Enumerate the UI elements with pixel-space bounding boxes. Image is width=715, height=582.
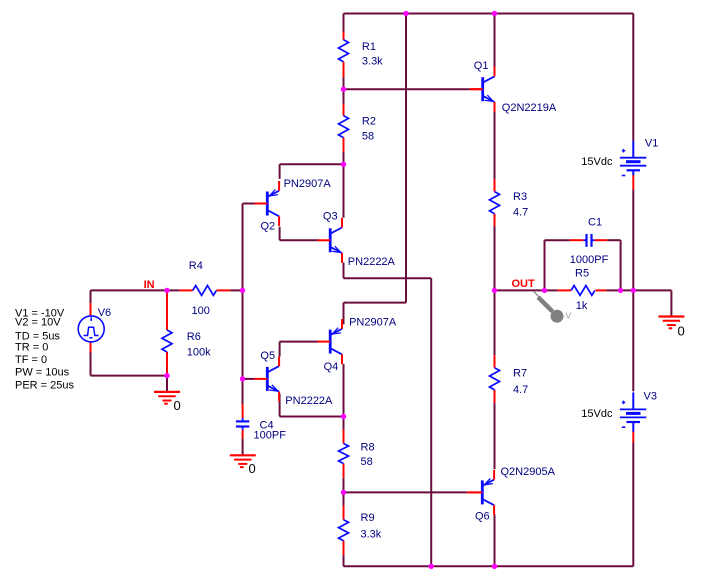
red lead V1 bottom bbox=[632, 175, 634, 190]
red lead R6 bottom bbox=[166, 352, 168, 373]
red lead R5 right bbox=[596, 289, 607, 291]
svg-text:R3: R3 bbox=[513, 191, 527, 203]
transistor Q5 base pin bbox=[255, 378, 268, 380]
wire battery column to right ground bbox=[633, 289, 671, 291]
resistor R7 zigzag bbox=[490, 368, 500, 390]
transistor Q4 emitter bbox=[331, 329, 342, 335]
wire Q1 collector to rail bbox=[494, 14, 496, 68]
red lead C1 right bbox=[595, 239, 608, 241]
svg-text:15Vdc: 15Vdc bbox=[581, 156, 613, 168]
junction R1-R2 Q1 base node bbox=[341, 87, 346, 92]
red lead R2 top bbox=[343, 104, 345, 116]
transistor Q3 base bar bbox=[329, 228, 332, 252]
wire Q2 base run bbox=[243, 203, 255, 205]
transistor Q5 base bar bbox=[266, 367, 269, 391]
svg-text:Q2N2219A: Q2N2219A bbox=[502, 102, 557, 114]
svg-text:1000PF: 1000PF bbox=[570, 254, 609, 266]
transistor Q4 base pin bbox=[317, 341, 330, 343]
svg-text:R9: R9 bbox=[361, 512, 375, 524]
wire Q1 base run bbox=[344, 88, 470, 90]
junction R6 bottom node bbox=[164, 373, 169, 378]
red lead Q1 base bbox=[470, 88, 483, 90]
pulse source V6 waveform glyph bbox=[84, 327, 99, 335]
svg-text:Q3: Q3 bbox=[323, 210, 338, 222]
wire V3 to bottom rail bbox=[632, 442, 634, 566]
wire OUT to R7 bbox=[494, 290, 496, 355]
svg-text:V3: V3 bbox=[644, 391, 657, 403]
wire R8 to node bbox=[343, 478, 345, 493]
svg-text:100k: 100k bbox=[187, 346, 211, 358]
wire R1 top lead stub bbox=[343, 14, 345, 32]
svg-text:Q1: Q1 bbox=[474, 60, 489, 72]
transistor Q6 base bar bbox=[481, 480, 484, 504]
red lead R4 left bbox=[179, 289, 192, 291]
junction R2 bottom node bbox=[341, 162, 346, 167]
transistor Q6 base pin bbox=[470, 491, 483, 493]
svg-text:R8: R8 bbox=[361, 442, 375, 454]
junction IN node bbox=[164, 288, 169, 293]
red lead R8 top bbox=[343, 430, 345, 444]
dc source V3 minus mark bbox=[622, 426, 626, 428]
wire Q6 base run bbox=[344, 491, 468, 493]
svg-text:R5: R5 bbox=[575, 267, 589, 279]
wire Q1 emitter to R3 bbox=[494, 112, 496, 180]
wire mid node to V3 bbox=[632, 290, 634, 391]
transistor Q1 base pin bbox=[470, 88, 483, 90]
ground 0 below R6 bbox=[154, 391, 180, 393]
svg-text:100PF: 100PF bbox=[254, 430, 287, 442]
transistor Q1 collector bbox=[484, 76, 495, 82]
junction R5 C1 right bbox=[618, 288, 623, 293]
dc source V1 battery symbol bbox=[632, 141, 634, 158]
svg-text:58: 58 bbox=[361, 456, 373, 468]
svg-text:0: 0 bbox=[174, 398, 181, 413]
wire column C down to bottom rail bbox=[430, 278, 432, 566]
wire top +15V rail bbox=[344, 13, 634, 15]
junction top rail at Q1 collector bbox=[492, 11, 497, 16]
svg-text:100: 100 bbox=[192, 305, 210, 317]
voltage probe marker bbox=[534, 291, 539, 296]
dc source V3 battery symbol bbox=[632, 392, 634, 409]
red lead V6 bottom bbox=[90, 342, 92, 353]
wire node to R9 bbox=[343, 492, 345, 505]
resistor R1 zigzag bbox=[339, 40, 349, 62]
wire C1 left riser bbox=[544, 240, 546, 290]
wire R5 right lead segment bbox=[606, 289, 620, 291]
junction R8 R9 Q6 base node bbox=[341, 490, 346, 495]
wire Q2 collector to Q3 base bbox=[279, 227, 281, 241]
resistor R6 zigzag bbox=[162, 330, 172, 352]
junction bottom rail Q6 collector bbox=[492, 564, 497, 569]
svg-text:PN2222A: PN2222A bbox=[348, 256, 396, 268]
transistor Q4 base bar bbox=[329, 330, 332, 354]
svg-text:4.7: 4.7 bbox=[513, 384, 528, 396]
wire Q5 emitter run bbox=[279, 394, 281, 417]
svg-text:OUT: OUT bbox=[512, 278, 536, 290]
svg-text:15Vdc: 15Vdc bbox=[581, 408, 613, 420]
wire Q4 collector to node bbox=[343, 364, 345, 417]
svg-text:TD = 5us: TD = 5us bbox=[15, 330, 60, 342]
transistor Q5 emitter bbox=[268, 386, 279, 392]
dc source V1 plus mark bbox=[622, 150, 626, 152]
transistor Q2 collector bbox=[268, 211, 279, 217]
dc source V3 plus mark bbox=[622, 401, 626, 403]
wire R7 to Q6 emitter bbox=[494, 403, 496, 469]
svg-text:0: 0 bbox=[678, 323, 685, 338]
wire R6 bottom node to ground bbox=[166, 376, 168, 392]
wire R3 to OUT node bbox=[494, 226, 496, 291]
transistor Q6 collector bbox=[483, 499, 494, 505]
red lead R7 bottom bbox=[494, 390, 496, 403]
svg-text:R2: R2 bbox=[362, 116, 376, 128]
wire node to R8 bbox=[343, 417, 345, 430]
dc source V1 minus mark bbox=[622, 175, 626, 177]
svg-text:R1: R1 bbox=[362, 41, 376, 53]
svg-text:1k: 1k bbox=[576, 300, 588, 312]
svg-text:PN2907A: PN2907A bbox=[349, 316, 397, 328]
wire V6 bottom to R6 bottom node bbox=[90, 353, 92, 376]
svg-text:R6: R6 bbox=[187, 331, 201, 343]
ground 0 right of R5 bbox=[658, 315, 684, 317]
wire R5/C1 junction to battery column bbox=[621, 289, 634, 291]
wire Q2 emitter run bbox=[279, 164, 281, 179]
resistor R4 zigzag bbox=[193, 286, 217, 296]
wire V1 column upper bbox=[632, 14, 634, 141]
wire Q6 collector to bottom rail bbox=[494, 515, 496, 567]
resistor R5 zigzag bbox=[571, 286, 595, 296]
red lead C4 top bbox=[242, 404, 244, 418]
ground 0 below C4 bbox=[230, 454, 256, 456]
pulse source V6 circle bbox=[78, 316, 104, 342]
red lead R2 bottom bbox=[343, 138, 345, 152]
junction Q5 base node bbox=[240, 376, 245, 381]
transistor Q1 base bar bbox=[481, 77, 484, 101]
junction top rail at column B bbox=[403, 11, 408, 16]
transistor Q2 base pin bbox=[255, 203, 268, 205]
wire bottom rail bbox=[344, 565, 634, 567]
svg-text:C1: C1 bbox=[588, 217, 602, 229]
junction R4 input column bbox=[240, 288, 245, 293]
wire input column to Q5 base node bbox=[242, 290, 244, 379]
wire IN node run bbox=[91, 289, 168, 291]
svg-text:0: 0 bbox=[249, 461, 256, 476]
svg-text:V2 = 10V: V2 = 10V bbox=[15, 317, 61, 329]
junction R5 C1 left bbox=[542, 288, 547, 293]
svg-text:V6: V6 bbox=[98, 307, 111, 319]
wire R5 left lead segment bbox=[545, 289, 558, 291]
transistor Q5 collector bbox=[268, 366, 279, 372]
transistor Q4 collector bbox=[331, 349, 342, 355]
red lead R9 top bbox=[343, 506, 345, 520]
resistor R9 zigzag bbox=[339, 520, 349, 541]
wire Q3 emitter run bbox=[343, 263, 345, 279]
junction OUT node bbox=[492, 288, 497, 293]
wire R2 to node segment bbox=[343, 152, 345, 165]
svg-text:Q5: Q5 bbox=[260, 350, 275, 362]
wire Q5 base node to C4 bbox=[242, 379, 244, 404]
wire C1 right riser bbox=[607, 239, 620, 241]
red lead V6 top bbox=[90, 303, 92, 316]
red lead C4 bottom bbox=[242, 430, 244, 439]
resistor R8 zigzag bbox=[339, 444, 349, 464]
wire R4 right lead to input column bbox=[230, 289, 242, 291]
transistor Q3 base pin bbox=[317, 239, 330, 241]
junction Q4 collector R8 node bbox=[341, 414, 346, 419]
pulse source V6 plus tick bbox=[90, 317, 92, 321]
resistor R2 zigzag bbox=[339, 116, 349, 138]
wire V1 to mid node bbox=[632, 190, 634, 291]
red lead R1 top bbox=[343, 32, 345, 40]
svg-text:3.3k: 3.3k bbox=[361, 528, 382, 540]
transistor Q3 collector bbox=[331, 228, 342, 234]
svg-text:Q2: Q2 bbox=[261, 220, 276, 232]
wire Q5 base stub bbox=[243, 378, 255, 380]
red lead R1 bottom bbox=[343, 62, 345, 78]
transistor Q3 emitter bbox=[331, 247, 342, 253]
wire C4 to ground bbox=[242, 439, 244, 456]
wire column B rail to Q4 emitter bbox=[405, 14, 407, 303]
red lead R8 bottom bbox=[343, 464, 345, 478]
svg-text:Q2N2905A: Q2N2905A bbox=[501, 466, 556, 478]
svg-text:R4: R4 bbox=[189, 260, 203, 272]
svg-text:58: 58 bbox=[362, 130, 374, 142]
red lead C1 left bbox=[570, 239, 584, 241]
junction bottom rail column C bbox=[429, 564, 434, 569]
svg-text:V: V bbox=[566, 311, 572, 321]
svg-text:PN2907A: PN2907A bbox=[284, 178, 332, 190]
svg-text:IN: IN bbox=[144, 279, 155, 291]
capacitor C4 plates bbox=[236, 420, 249, 422]
svg-text:PN2222A: PN2222A bbox=[285, 395, 333, 407]
transistor Q2 base bar bbox=[266, 192, 269, 216]
wire R9 bottom corner bbox=[343, 555, 345, 566]
junction battery mid rail bbox=[631, 288, 636, 293]
transistor Q6 emitter bbox=[483, 480, 494, 486]
svg-text:Q6: Q6 bbox=[475, 511, 490, 523]
resistor R3 zigzag bbox=[490, 192, 500, 214]
red lead R7 top bbox=[494, 355, 496, 367]
wire V6 top corner bbox=[90, 290, 92, 303]
svg-text:V1: V1 bbox=[645, 138, 658, 150]
capacitor C1 plates bbox=[585, 234, 587, 247]
transistor Q2 emitter bbox=[268, 191, 279, 197]
svg-text:R7: R7 bbox=[513, 367, 527, 379]
red lead V3 bottom bbox=[632, 432, 634, 443]
red lead R3 top bbox=[494, 179, 496, 191]
svg-text:PW = 10us: PW = 10us bbox=[15, 367, 70, 379]
red lead Q6 base bbox=[467, 491, 483, 493]
red lead R6 top bbox=[166, 293, 168, 330]
pulse source V6 minus mark bbox=[89, 337, 92, 339]
transistor Q1 emitter bbox=[484, 96, 495, 102]
svg-text:PER = 25us: PER = 25us bbox=[15, 379, 75, 391]
svg-text:Q4: Q4 bbox=[324, 361, 339, 373]
svg-text:3.3k: 3.3k bbox=[362, 56, 383, 68]
svg-text:4.7: 4.7 bbox=[513, 207, 528, 219]
red lead R4 right bbox=[216, 289, 230, 291]
wire node to Q3 collector bbox=[343, 164, 345, 217]
wire R1-R2 junction segment bbox=[343, 77, 345, 104]
wire Q5 collector to Q4 base bbox=[279, 342, 281, 357]
red lead R3 bottom bbox=[494, 214, 496, 226]
red lead R9 bottom bbox=[343, 541, 345, 556]
red lead R5 left bbox=[558, 289, 571, 291]
svg-text:TR = 0: TR = 0 bbox=[15, 342, 48, 354]
wire OUT node to R5 net bbox=[495, 289, 545, 291]
svg-text:TF = 0: TF = 0 bbox=[15, 354, 47, 366]
